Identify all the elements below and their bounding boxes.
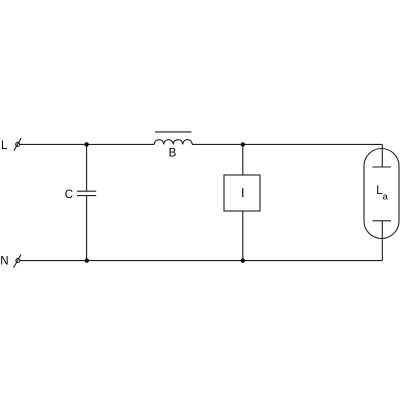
svg-text:B: B xyxy=(169,147,177,159)
svg-text:C: C xyxy=(65,189,73,201)
svg-text:N: N xyxy=(0,255,8,267)
svg-text:a: a xyxy=(383,192,389,203)
svg-text:L: L xyxy=(1,140,8,152)
